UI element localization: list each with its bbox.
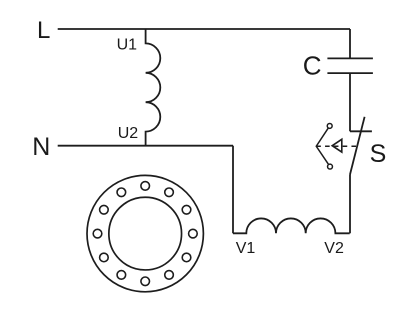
wire N drop to V1: [232, 146, 234, 234]
switch S actuator fork: [316, 128, 328, 165]
svg-text:U1: U1: [117, 37, 138, 54]
svg-text:S: S: [370, 140, 387, 168]
wire top right drop to capacitor: [349, 29, 351, 58]
capacitor C plates: [327, 58, 373, 73]
wire switch to V2: [349, 175, 351, 234]
svg-text:N: N: [32, 133, 50, 161]
svg-text:L: L: [37, 17, 50, 44]
wire capacitor to switch: [349, 73, 351, 131]
svg-text:V2: V2: [324, 240, 344, 257]
motor bearing balls ring (12 small circles): [93, 182, 197, 286]
switch S fixed contact bar: [350, 130, 372, 132]
wire L top rail: [58, 28, 350, 30]
inductor U1-U2 main winding: [146, 29, 161, 146]
motor rotor inner circle: [109, 197, 182, 270]
svg-text:V1: V1: [236, 240, 256, 257]
motor stator outer circle: [87, 175, 203, 291]
switch S actuator pivot circle top: [327, 123, 332, 128]
switch S blade: [350, 117, 365, 175]
switch S actuator arrowhead triangle: [332, 139, 342, 152]
wire N rail: [58, 145, 233, 147]
switch S actuator pivot circle bottom: [328, 164, 333, 169]
svg-text:U2: U2: [118, 125, 139, 142]
svg-text:C: C: [303, 51, 322, 81]
switch S actuator dashed link: [316, 145, 357, 147]
inductor V1-V2 auxiliary winding: [233, 218, 350, 233]
